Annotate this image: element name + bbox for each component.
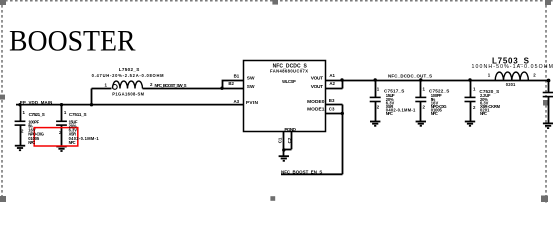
svg-text:NFC_BOOST_SW_S: NFC_BOOST_SW_S: [155, 83, 187, 88]
svg-text:B1: B1: [234, 73, 240, 78]
svg-text:WLCSP: WLCSP: [282, 79, 296, 84]
svg-text:NFC_DCDC_OUT_S: NFC_DCDC_OUT_S: [388, 73, 432, 78]
svg-text:1: 1: [473, 86, 476, 91]
svg-text:P1GA1608-SM: P1GA1608-SM: [112, 92, 144, 97]
svg-text:C1: C1: [278, 137, 283, 143]
svg-text:C3: C3: [329, 106, 335, 111]
svg-text:FAN48680UC07X: FAN48680UC07X: [270, 69, 308, 74]
svg-text:PVIN: PVIN: [246, 100, 259, 106]
svg-text:VOUT: VOUT: [311, 84, 323, 90]
svg-text:2: 2: [377, 105, 380, 110]
svg-text:2: 2: [533, 73, 536, 78]
svg-text:MODE0: MODE0: [307, 99, 325, 105]
svg-text:1: 1: [64, 110, 67, 115]
svg-text:PP_VDD_MAIN: PP_VDD_MAIN: [20, 100, 53, 105]
svg-text:NFC_BOOST_EN_S: NFC_BOOST_EN_S: [281, 170, 322, 175]
svg-text:C2: C2: [287, 137, 292, 143]
svg-text:NFC: NFC: [69, 140, 76, 145]
svg-text:0201: 0201: [506, 82, 516, 87]
svg-text:MODE1: MODE1: [307, 106, 325, 112]
svg-text:1: 1: [423, 86, 426, 91]
svg-text:NFC: NFC: [431, 111, 438, 116]
svg-text:SW: SW: [247, 76, 255, 82]
svg-text:1: 1: [23, 110, 26, 115]
svg-text:0.47UH-20%-2.52A-0.08OHM: 0.47UH-20%-2.52A-0.08OHM: [92, 73, 165, 78]
svg-text:VOUT: VOUT: [311, 76, 323, 82]
svg-text:100NH-50%-1A-0.05OHM: 100NH-50%-1A-0.05OHM: [472, 64, 553, 70]
svg-text:B2: B2: [228, 81, 234, 86]
svg-text:A1: A1: [329, 73, 335, 78]
svg-text:1: 1: [105, 82, 108, 87]
svg-text:2: 2: [150, 82, 153, 87]
svg-text:PGND: PGND: [284, 127, 296, 133]
svg-text:2: 2: [21, 129, 24, 134]
svg-text:NFC: NFC: [480, 111, 487, 116]
svg-text:A3: A3: [234, 99, 240, 104]
svg-text:B3: B3: [329, 98, 335, 103]
svg-text:2: 2: [473, 105, 476, 110]
svg-text:2: 2: [423, 105, 426, 110]
svg-text:C7511_S: C7511_S: [69, 112, 87, 117]
svg-text:1: 1: [377, 86, 380, 91]
svg-text:BOOSTER: BOOSTER: [9, 24, 136, 57]
svg-text:1: 1: [488, 72, 491, 77]
svg-text:A2: A2: [329, 81, 335, 86]
svg-text:L7502_S: L7502_S: [119, 67, 140, 72]
svg-text:SW: SW: [247, 84, 255, 90]
svg-text:NFC: NFC: [386, 111, 393, 116]
svg-text:NFC: NFC: [28, 140, 35, 145]
svg-text:C7521_S: C7521_S: [29, 112, 45, 117]
